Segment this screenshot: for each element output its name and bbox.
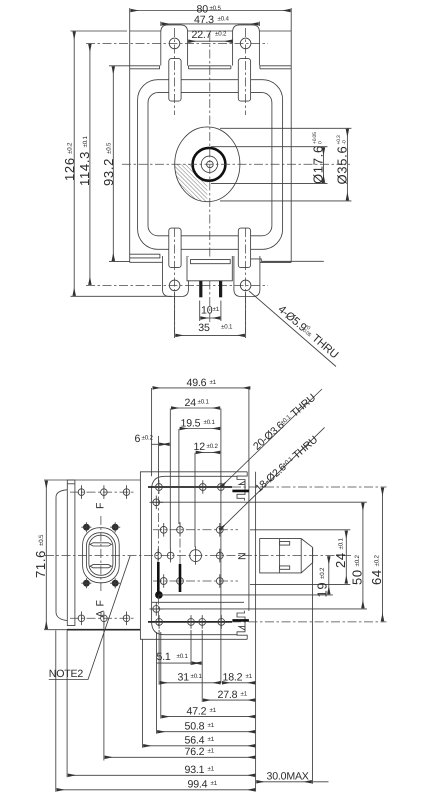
svg-text:6: 6 <box>135 433 141 445</box>
dim 126 line <box>73 31 75 296</box>
oval corner hole br <box>110 578 120 588</box>
bottom ext x202.2 <box>201 630 203 702</box>
dim d35.6 ext top <box>220 127 351 129</box>
svg-text:NOTE2: NOTE2 <box>49 668 84 680</box>
svg-text:±1: ±1 <box>241 691 248 698</box>
bottom-right ear hole <box>240 280 251 291</box>
bottom-right ear vertical centerline <box>245 228 247 333</box>
column ext x221 <box>220 409 222 684</box>
small center circle <box>207 161 214 168</box>
body right edge and 49.6 ext <box>248 388 250 611</box>
dim 93.2 text <box>101 142 116 186</box>
body box inner wall <box>148 93 272 236</box>
thick bar x158 <box>157 562 160 594</box>
row1 centerline to 64 dim <box>232 486 387 488</box>
bottom-right mounting ear <box>234 256 260 297</box>
svg-text:10: 10 <box>201 304 213 316</box>
svg-text:±1: ±1 <box>208 748 215 755</box>
bottom-left ear vertical centerline <box>174 228 176 333</box>
svg-text:±0.1: ±0.1 <box>221 324 233 331</box>
thick circle d17.6 <box>193 148 226 181</box>
svg-text:±0.1: ±0.1 <box>191 673 203 680</box>
cap outline <box>260 539 313 573</box>
cap step line <box>279 539 281 573</box>
dim 24 right line <box>345 531 347 584</box>
svg-text:±0.1: ±0.1 <box>82 136 89 148</box>
row3 holes <box>155 547 224 565</box>
bottom-right clip outline <box>237 611 247 640</box>
svg-text:±0.2: ±0.2 <box>354 555 361 567</box>
svg-text:±1: ±1 <box>208 722 215 729</box>
svg-text:±0.2: ±0.2 <box>319 567 326 579</box>
dim 10 line <box>200 317 220 319</box>
dim 47.3 line <box>162 23 259 25</box>
svg-text:24: 24 <box>185 397 197 409</box>
filter box bottom ext <box>44 629 67 631</box>
dim 31 line <box>160 682 221 684</box>
dim 10 ext lines <box>200 301 221 322</box>
svg-text:19.5: 19.5 <box>181 417 201 429</box>
leader 4-d5.9 text <box>276 303 341 361</box>
filter box bottom row holes <box>78 612 130 626</box>
bottom ext x55.8 <box>55 630 57 791</box>
svg-text:19: 19 <box>315 582 330 598</box>
svg-text:A: A <box>95 610 107 618</box>
svg-text:-0: -0 <box>342 140 348 144</box>
row5 filled hole <box>155 591 163 599</box>
bottom-left mounting ear <box>163 256 189 297</box>
svg-text:±0.2: ±0.2 <box>374 555 381 567</box>
svg-text:Ø17.6: Ø17.6 <box>310 145 325 184</box>
column ext x195 <box>194 453 196 547</box>
dim 126 bottom ext <box>71 295 173 297</box>
svg-text:±1: ±1 <box>211 780 218 787</box>
dim d35.6 text <box>334 135 349 184</box>
top-left ear hole <box>169 38 180 49</box>
svg-text:0: 0 <box>318 141 324 144</box>
flange top inner double line <box>130 66 292 69</box>
dim 56.4 line <box>143 745 255 747</box>
filter box top row holes <box>78 485 130 499</box>
svg-text:±0.1: ±0.1 <box>204 419 216 426</box>
dim 126 top ext <box>71 30 128 32</box>
oval slot mark upper <box>90 543 111 546</box>
row6 centerline to 64 dim <box>232 621 387 623</box>
main horizontal centerline <box>45 555 352 557</box>
svg-text:31: 31 <box>178 672 190 684</box>
dim d17.6 ext bottom <box>211 182 328 184</box>
dim 64 line <box>382 488 384 622</box>
svg-text:12: 12 <box>194 441 206 453</box>
bottom tab box <box>188 257 232 281</box>
svg-text:35: 35 <box>198 322 210 334</box>
row1b seam line <box>152 501 367 503</box>
dim 6 ext <box>158 436 160 482</box>
row6 holes <box>156 615 225 629</box>
svg-text:±1: ±1 <box>208 736 215 743</box>
bottom ext x142.5 <box>142 640 144 748</box>
svg-text:5.1: 5.1 <box>157 651 171 663</box>
svg-text:±1: ±1 <box>213 306 220 313</box>
dim d35.6 line <box>346 129 348 201</box>
dim 24 top line <box>171 407 220 409</box>
dim 126 text <box>62 142 77 181</box>
dim 93.1 line <box>68 774 255 776</box>
svg-text:114.3: 114.3 <box>77 151 92 186</box>
filter box left bulge <box>56 490 67 621</box>
dim 80 line <box>130 10 290 12</box>
flange left edge <box>129 8 131 263</box>
top-right clip outline <box>237 472 247 501</box>
bottom ext x67.1 <box>66 630 68 777</box>
svg-text:±1: ±1 <box>210 707 217 714</box>
svg-text:±0.1: ±0.1 <box>338 538 345 550</box>
bottom-right slot channel <box>238 228 250 268</box>
bottom ext x156.5 <box>156 632 158 734</box>
svg-text:F: F <box>95 600 107 607</box>
row1b hole <box>150 496 164 510</box>
bottom ext x160.8 <box>160 632 162 719</box>
bottom-left slot channel <box>169 228 181 268</box>
dim 49.6 line <box>153 387 251 389</box>
flange bottom edge <box>130 261 292 263</box>
horizontal centerline <box>122 163 350 165</box>
dim 99.4 line <box>57 789 256 791</box>
bottom ext x312.5 <box>312 548 314 784</box>
bottom-right clip arrow mark <box>239 627 245 630</box>
svg-text:±0.2: ±0.2 <box>66 142 73 154</box>
svg-text:76.2: 76.2 <box>185 746 205 758</box>
dim 27.8 line <box>203 699 255 701</box>
svg-text:±0.2: ±0.2 <box>207 443 219 450</box>
leader 18-d2.6 line <box>220 427 325 529</box>
dim 18.2 line <box>222 682 255 684</box>
dim d17.6 text <box>310 132 325 184</box>
svg-text:24: 24 <box>333 552 348 568</box>
row4 ext to 24 dim <box>250 583 350 585</box>
top-right slot channel <box>238 59 250 102</box>
row2 centerline <box>153 529 238 531</box>
svg-text:±0.5: ±0.5 <box>210 5 222 12</box>
top-right ear hole <box>240 38 251 49</box>
dim 5.1 line with inside arrows <box>156 662 191 664</box>
dim 19 text <box>315 567 330 597</box>
oval corner hole tr <box>110 522 120 532</box>
cap lower tab <box>280 566 290 569</box>
svg-text:30.0MAX: 30.0MAX <box>267 771 309 783</box>
svg-text:56.4: 56.4 <box>185 735 205 747</box>
body box outer wall <box>138 80 283 250</box>
filter box top hole row centerline <box>70 491 136 493</box>
row1 holes <box>156 480 225 494</box>
row2 holes <box>160 523 223 537</box>
dim 50.8 line <box>157 731 255 733</box>
svg-text:±1: ±1 <box>246 673 253 680</box>
dim 114.3 text <box>77 136 92 186</box>
row1 centerline thick <box>148 486 232 488</box>
svg-text:71.6: 71.6 <box>33 550 48 578</box>
dim 22.7 line <box>188 40 232 42</box>
svg-text:50.8: 50.8 <box>185 721 205 733</box>
dim 19.5 line <box>180 428 221 430</box>
cap upper tab <box>280 542 290 546</box>
flange right edge <box>290 8 292 262</box>
svg-text:22.7: 22.7 <box>192 29 212 41</box>
oval mid <box>86 533 115 578</box>
svg-text:±0.5: ±0.5 <box>105 142 112 154</box>
flange bottom inner double line <box>130 254 324 262</box>
oval inner <box>89 535 113 575</box>
svg-text:Ø35.6: Ø35.6 <box>334 146 349 185</box>
column centerline x158 <box>158 480 160 628</box>
row5 line to 19 dim <box>159 594 333 596</box>
leader 4-d5.9 line <box>249 291 336 367</box>
NOTE2 leader <box>49 556 130 680</box>
svg-text:±0.1: ±0.1 <box>198 399 210 406</box>
dim 71.6 line <box>45 481 47 629</box>
oval outer <box>83 528 120 583</box>
top ear holes centerline <box>86 42 268 44</box>
column ext x179 <box>178 429 180 524</box>
body outer rect <box>140 472 247 640</box>
row5b ext to 50 dim <box>150 608 367 610</box>
svg-text:27.8: 27.8 <box>218 689 238 701</box>
row4 holes <box>160 574 223 588</box>
dim 24 right text <box>333 538 348 568</box>
svg-text:F: F <box>95 502 107 509</box>
dim 114.3 line <box>89 44 91 285</box>
row4 centerline <box>153 580 238 582</box>
leader 20-d3.6 text <box>251 392 318 453</box>
dim 71.6 text <box>33 534 48 578</box>
dim 93.2 line <box>112 66 114 261</box>
cap chamfer line <box>300 539 302 573</box>
dim d35.6 ext bottom <box>220 200 351 202</box>
svg-text:N: N <box>237 553 249 560</box>
row5b hole <box>150 602 164 616</box>
svg-text:64: 64 <box>369 569 384 585</box>
svg-text:50: 50 <box>350 569 365 585</box>
bottom tab left prong <box>199 281 202 298</box>
dim d17.6 ext top <box>211 146 328 148</box>
mid circle <box>201 156 217 172</box>
dim 93.2 ext to left bottom <box>109 260 130 262</box>
dim 6 line with inside arrows <box>151 443 159 445</box>
dim 93.2 ext to left top <box>109 65 130 67</box>
oval slot mark lower <box>90 565 111 568</box>
row2 ext to 24 dim <box>250 529 350 531</box>
bottom tab right prong <box>219 281 222 298</box>
top-right mounting ear <box>233 25 260 66</box>
svg-text:49.6: 49.6 <box>187 377 207 389</box>
svg-text:93.2: 93.2 <box>101 158 116 186</box>
dim 76.2 line <box>105 756 256 758</box>
svg-text:±0.2: ±0.2 <box>142 434 154 441</box>
dim 12 line <box>196 451 221 453</box>
dim 35 line <box>175 334 245 336</box>
column centerline x180 <box>179 522 181 590</box>
dim 47.3 ext lines <box>161 22 260 27</box>
dim 50 text <box>350 555 365 585</box>
flange top edge <box>130 30 292 32</box>
right ear vertical centerline <box>245 28 247 115</box>
svg-text:±1: ±1 <box>208 766 215 773</box>
dim d17.6 line <box>323 147 325 183</box>
svg-text:47.2: 47.2 <box>187 705 207 717</box>
row6 centerline thick <box>148 621 232 623</box>
svg-text:±0.5: ±0.5 <box>38 534 45 546</box>
bottom ext x191 <box>190 630 192 665</box>
svg-text:±0.2: ±0.2 <box>215 31 227 38</box>
bottom tab crossbar <box>191 260 231 264</box>
bottom-right clip thick bar <box>232 619 249 622</box>
bottom ear holes centerline <box>86 284 268 286</box>
hatch quadrant section <box>175 164 208 201</box>
left ear vertical centerline <box>174 28 176 115</box>
bottom ext x103.9 <box>103 622 105 761</box>
filter box top edge <box>44 479 140 481</box>
top-left slot channel <box>169 59 181 102</box>
dim 35 ext lines <box>175 292 246 338</box>
oval corner hole tl <box>81 522 91 532</box>
top-right clip thick bar <box>232 490 249 493</box>
svg-text:±0.4: ±0.4 <box>218 16 230 23</box>
svg-text:±0.1: ±0.1 <box>177 653 189 660</box>
svg-text:±1: ±1 <box>210 379 217 386</box>
svg-text:93.1: 93.1 <box>185 764 205 776</box>
filter box bottom thick edge <box>67 629 140 631</box>
svg-text:126: 126 <box>62 157 77 181</box>
dim 47.2 line <box>162 716 256 718</box>
filter box front lip <box>67 480 75 626</box>
column ext x170 <box>169 409 171 550</box>
oval vertical centerline <box>100 516 102 593</box>
dim 64 text <box>369 555 384 585</box>
leader 18-d2.6 text <box>253 434 320 495</box>
svg-text:18.2: 18.2 <box>223 672 243 684</box>
vertical centerline <box>209 33 211 322</box>
long right edge extension line <box>255 472 257 792</box>
top-left mounting ear <box>161 25 188 66</box>
svg-text:99.4: 99.4 <box>188 779 208 791</box>
filter box bottom hole row centerline <box>70 617 136 619</box>
dim 50 line <box>362 503 364 609</box>
leader 20-d3.6 line <box>221 389 322 487</box>
thick bar x180 <box>179 564 182 592</box>
top-right clip arrow mark <box>239 481 245 484</box>
row5b seam line <box>152 601 244 603</box>
oval corner hole bl <box>81 578 91 588</box>
outer circle d35.6 <box>175 127 240 202</box>
body inner shell <box>152 388 238 635</box>
svg-text:47.3: 47.3 <box>194 14 214 26</box>
filter box lip inner line <box>67 483 75 485</box>
bottom-left ear hole <box>169 280 180 291</box>
dim 30.0MAX line <box>256 781 312 783</box>
bottom ext x159.1 <box>158 630 160 685</box>
dim 19 line <box>328 556 330 594</box>
